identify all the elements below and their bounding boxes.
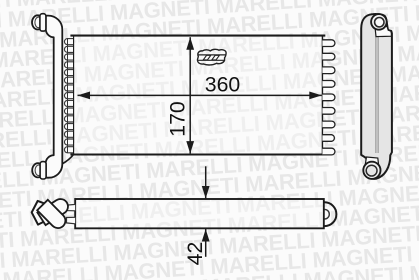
- svg-text:170: 170: [165, 101, 189, 137]
- svg-text:360: 360: [205, 72, 241, 96]
- svg-text:42: 42: [183, 242, 207, 266]
